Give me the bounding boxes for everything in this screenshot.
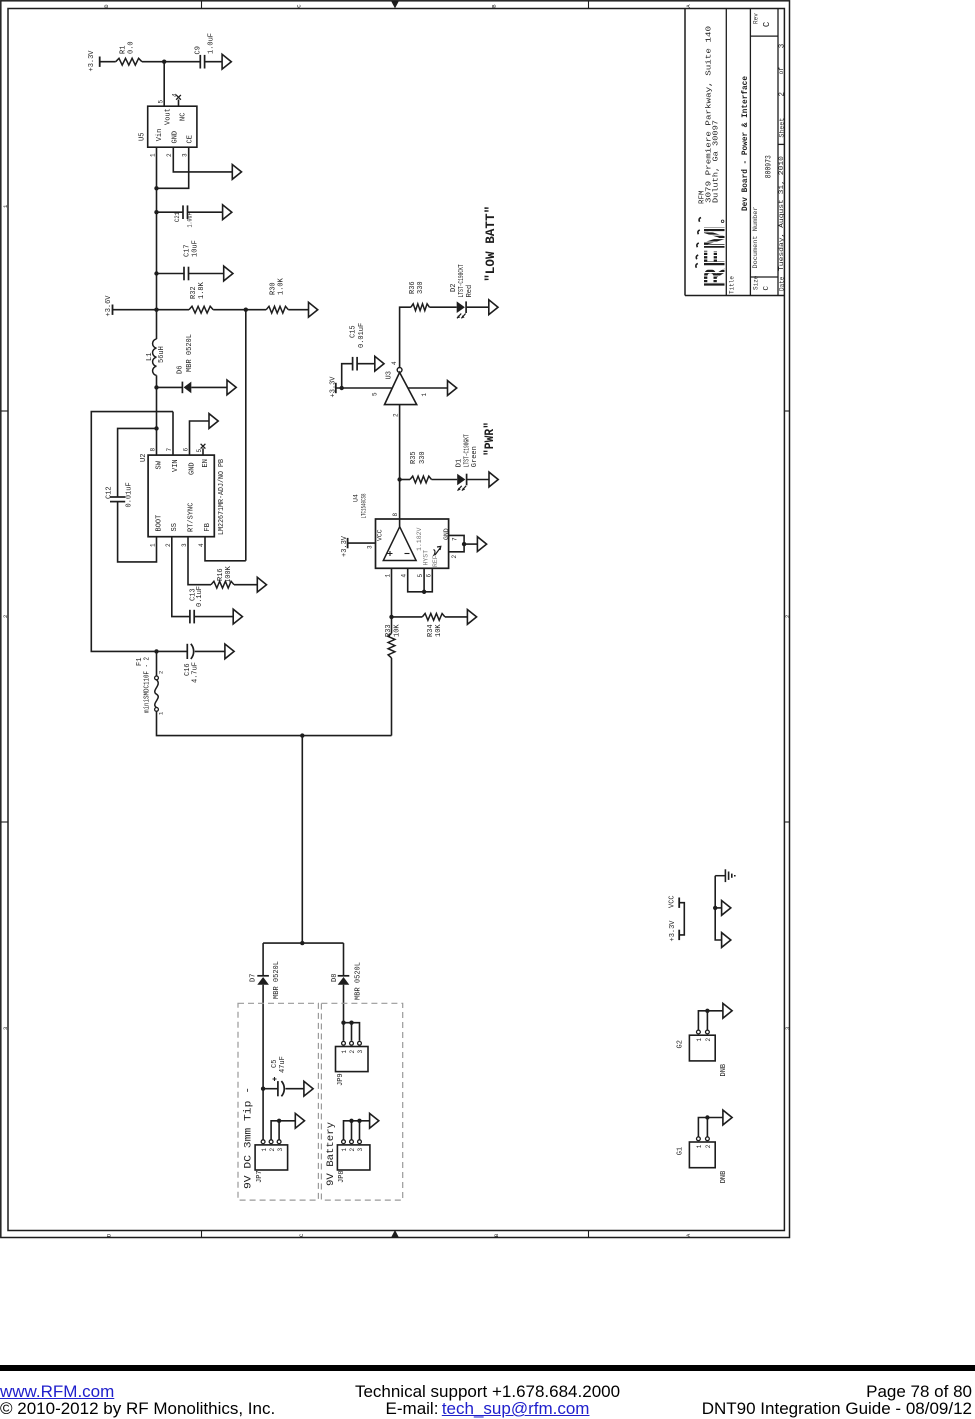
wire	[336, 387, 392, 389]
svg-text:5: 5	[196, 449, 203, 453]
svg-text:1.0K: 1.0K	[278, 277, 286, 295]
svg-text:A: A	[685, 1233, 692, 1237]
svg-text:DNB: DNB	[720, 1171, 728, 1184]
svg-text:7: 7	[452, 537, 459, 541]
pin stub NC pin 4	[178, 100, 180, 107]
svg-text:D8: D8	[331, 974, 339, 982]
zone tick left	[1, 821, 8, 823]
svg-text:Title: Title	[729, 276, 736, 294]
no-connect X	[176, 95, 181, 100]
svg-text:56uH: 56uH	[158, 346, 166, 363]
junction	[349, 1021, 353, 1025]
wire	[715, 907, 721, 909]
diode D6	[184, 382, 192, 394]
svg-text:LTC1540CS8: LTC1540CS8	[361, 493, 368, 518]
wire	[142, 61, 200, 63]
svg-text:Duluth, Ga 30097: Duluth, Ga 30097	[712, 120, 720, 203]
ground	[224, 266, 233, 281]
pin circles JP7	[261, 1140, 265, 1144]
svg-text:MBR 0520L: MBR 0520L	[186, 334, 194, 372]
svg-text:C17: C17	[184, 244, 192, 257]
wire	[163, 62, 165, 106]
svg-text:0.1uF: 0.1uF	[196, 586, 204, 607]
svg-text:4: 4	[198, 543, 205, 547]
wire C16 branch	[157, 650, 188, 652]
wire U2 VIN pin	[172, 412, 174, 456]
diode D8	[338, 977, 350, 985]
drawing frame outer border	[1, 1, 790, 1238]
wire C15 branch	[342, 364, 353, 388]
wire	[288, 309, 308, 311]
svg-text:9V Battery: 9V Battery	[326, 1122, 337, 1186]
wire R34 branch	[392, 616, 423, 618]
ground	[209, 414, 218, 429]
svg-text:C: C	[298, 1233, 305, 1237]
svg-text:0.01uF: 0.01uF	[126, 482, 134, 507]
svg-text:2: 2	[778, 92, 786, 97]
capacitor C12	[110, 496, 125, 498]
wire battery feed	[301, 736, 303, 944]
svg-text:1: 1	[385, 574, 392, 578]
power flag +3.6V	[112, 305, 114, 315]
junction	[154, 186, 158, 190]
pin circles G1	[697, 1137, 701, 1141]
svg-text:800973: 800973	[765, 155, 774, 178]
wire D6 branch	[157, 386, 183, 388]
ground	[448, 381, 457, 396]
svg-text:GND: GND	[172, 131, 180, 144]
LED D1	[457, 474, 465, 486]
wire	[343, 985, 345, 1041]
svg-text:2: 2	[784, 615, 791, 618]
junction	[705, 1115, 709, 1119]
svg-text:D1: D1	[456, 459, 464, 467]
power flag +3.3V	[678, 930, 680, 940]
svg-text:2: 2	[349, 1148, 356, 1152]
svg-text:U5: U5	[139, 133, 147, 141]
wire	[706, 1011, 708, 1030]
svg-text:Sheet: Sheet	[778, 118, 785, 138]
wire	[213, 309, 266, 311]
title block divider title/docnum	[749, 9, 751, 296]
wire JP7 pins 2-3 to ground	[271, 1121, 295, 1140]
wire U4 plus input	[391, 568, 393, 633]
RFM logo registered mark	[721, 220, 724, 223]
svg-text:Rev: Rev	[753, 13, 760, 24]
svg-text:1.8K: 1.8K	[198, 281, 206, 299]
svg-text:GND: GND	[443, 528, 450, 540]
wire C21 branch	[157, 211, 184, 213]
wire C17 branch	[157, 273, 185, 275]
capacitor C17	[183, 267, 185, 281]
svg-text:1.0uF: 1.0uF	[208, 33, 216, 54]
buck regulator U2	[148, 455, 214, 537]
wire	[359, 1121, 361, 1140]
ground	[489, 472, 498, 487]
wire	[351, 1121, 353, 1140]
comparator triangle	[383, 527, 416, 561]
svg-text:C21: C21	[174, 212, 181, 222]
title block rev cell divider	[750, 35, 778, 37]
svg-text:1: 1	[696, 1144, 703, 1148]
capacitor C5 polarized	[277, 1081, 279, 1096]
svg-text:3: 3	[182, 153, 189, 157]
svg-text:8: 8	[150, 448, 157, 452]
wire U4 right pins to ground	[449, 535, 465, 551]
resistor R34	[422, 614, 445, 621]
svg-text:U2: U2	[140, 454, 148, 462]
svg-text:D2: D2	[450, 284, 458, 292]
svg-text:+3.3V: +3.3V	[88, 50, 96, 72]
junction	[154, 426, 158, 430]
svg-text:JP8: JP8	[338, 1170, 346, 1183]
resistor R35	[410, 476, 432, 483]
resistor R1	[116, 58, 142, 65]
RFM logo flame marks	[699, 218, 701, 222]
comparator U4 box	[376, 519, 449, 568]
zone tick bottom	[588, 1231, 590, 1238]
drawing frame inner border	[8, 9, 784, 1231]
wire	[285, 1088, 304, 1090]
svg-text:100K: 100K	[225, 565, 233, 583]
connector JP8	[337, 1145, 370, 1170]
wire U2 RT/SYNC to R16	[188, 537, 211, 585]
svg-text:330: 330	[419, 451, 427, 464]
svg-text:2: 2	[165, 543, 172, 547]
LED D2	[457, 301, 465, 313]
wire feedback sense	[245, 310, 247, 561]
svg-text:2: 2	[349, 1050, 356, 1054]
svg-text:D6: D6	[177, 366, 185, 374]
ground	[722, 901, 731, 916]
svg-text:C12: C12	[106, 486, 114, 499]
footer row 1	[0, 1382, 975, 1402]
svg-text:R16: R16	[217, 568, 225, 581]
wire U2 GND to ground	[190, 421, 210, 455]
wire	[432, 479, 458, 481]
svg-text:3: 3	[784, 1027, 791, 1030]
svg-text:SS: SS	[171, 523, 179, 531]
wire	[156, 375, 158, 455]
svg-text:3: 3	[181, 543, 188, 547]
svg-text:R34: R34	[427, 624, 435, 637]
svg-text:+3.6V: +3.6V	[105, 295, 113, 317]
capacitor C16 polarized	[186, 644, 188, 659]
wire U3 output	[400, 307, 411, 367]
svg-text:VIN: VIN	[172, 459, 180, 472]
wire U3 ground pin	[408, 387, 448, 389]
ground	[467, 610, 476, 625]
svg-text:+3.3V: +3.3V	[669, 920, 677, 942]
resistor R32	[189, 306, 213, 313]
junction	[349, 1119, 353, 1123]
svg-text:CE: CE	[186, 135, 194, 143]
wire bootstrap loop with C12	[118, 428, 157, 497]
svg-text:2: 2	[2, 615, 9, 618]
wire U2 FB to divider	[205, 537, 246, 561]
wire	[429, 306, 456, 308]
capacitor C21	[182, 205, 184, 219]
svg-text:1: 1	[150, 543, 157, 547]
junction	[154, 308, 158, 312]
ground	[723, 1003, 732, 1018]
no-connect X	[201, 444, 206, 449]
svg-text:1: 1	[150, 153, 157, 157]
junction	[154, 649, 158, 653]
zone tick bottom	[201, 1231, 203, 1238]
footer rule	[0, 1365, 975, 1371]
svg-text:R35: R35	[410, 451, 418, 464]
title block size cell divider	[750, 276, 778, 278]
svg-text:6: 6	[183, 448, 190, 452]
svg-text:+3.3V: +3.3V	[330, 376, 338, 398]
svg-text:miniSMDC110F - 2: miniSMDC110F - 2	[144, 657, 152, 713]
connector JP7	[255, 1145, 288, 1170]
wire	[391, 658, 393, 736]
resistor R36	[411, 304, 430, 311]
svg-text:4.7uF: 4.7uF	[192, 662, 200, 683]
junction	[357, 1119, 361, 1123]
wire VCC to +3.3V tie	[679, 903, 684, 935]
zone arrow bottom	[391, 1230, 399, 1237]
wire	[191, 386, 227, 388]
svg-text:6: 6	[426, 574, 433, 578]
regulator U5	[148, 106, 197, 147]
wire	[156, 651, 158, 676]
wire JP8 pins to ground	[344, 1121, 370, 1140]
zone tick top	[201, 1, 203, 9]
svg-text:G1: G1	[677, 1147, 685, 1155]
resistor R30	[266, 306, 288, 313]
svg-text:C15: C15	[350, 325, 358, 338]
svg-text:0.01uF: 0.01uF	[358, 323, 366, 348]
junction	[341, 1021, 345, 1025]
svg-text:3: 3	[357, 1148, 364, 1152]
junction	[277, 1119, 281, 1123]
title block sheet cell divider	[778, 143, 784, 145]
svg-text:R1: R1	[120, 46, 128, 54]
svg-text:2: 2	[705, 1038, 712, 1042]
svg-text:1.0uF: 1.0uF	[187, 212, 194, 227]
svg-text:Tuesday, August 31, 2010: Tuesday, August 31, 2010	[778, 156, 785, 271]
ground	[477, 537, 486, 552]
svg-text:47uF: 47uF	[279, 1056, 287, 1073]
zone tick top	[588, 1, 590, 9]
wire G2 pins to ground	[698, 1011, 723, 1030]
svg-text:MBR 0520L: MBR 0520L	[355, 962, 363, 1000]
title block divider docnum/date	[777, 9, 779, 296]
svg-text:Green: Green	[471, 446, 479, 467]
svg-text:3: 3	[357, 1050, 364, 1054]
svg-text:10K: 10K	[394, 624, 402, 637]
ground	[227, 380, 236, 395]
ground	[723, 1110, 732, 1125]
svg-text:10K: 10K	[435, 624, 443, 637]
svg-text:1: 1	[158, 711, 165, 715]
wire	[706, 1118, 708, 1137]
wire	[194, 616, 233, 618]
wire	[351, 1023, 353, 1041]
pin circles G2	[697, 1030, 701, 1034]
wire	[113, 309, 190, 311]
svg-text:MBR 0520L: MBR 0520L	[273, 961, 281, 999]
svg-text:0.0: 0.0	[128, 41, 136, 54]
svg-text:4: 4	[391, 361, 398, 365]
svg-text:8: 8	[392, 513, 399, 517]
junction	[397, 477, 401, 481]
zone tick right	[784, 821, 789, 823]
junction	[244, 308, 248, 312]
resistor R16	[211, 581, 234, 588]
wire	[195, 650, 225, 652]
power flag +3.3V	[347, 538, 349, 548]
svg-text:C: C	[295, 4, 302, 8]
power flag +3.3V	[99, 57, 101, 67]
svg-text:REF: REF	[432, 555, 439, 567]
svg-text:SW: SW	[155, 460, 163, 469]
power flag +3.3V	[335, 383, 337, 393]
wire main rail from U5 Vin	[156, 147, 158, 339]
svg-text:2: 2	[269, 1148, 276, 1152]
wire	[189, 273, 224, 275]
svg-text:VCC: VCC	[377, 529, 384, 541]
wire	[205, 61, 223, 63]
wire	[343, 943, 345, 975]
svg-text:U3: U3	[386, 371, 394, 379]
svg-text:R36: R36	[409, 281, 417, 294]
svg-text:1: 1	[341, 1050, 348, 1054]
svg-text:4: 4	[401, 574, 408, 578]
wire	[278, 1121, 280, 1140]
svg-text:VCC: VCC	[669, 895, 677, 908]
svg-text:JP9: JP9	[337, 1073, 345, 1086]
svg-text:LM22671MR-ADJ/NO PB: LM22671MR-ADJ/NO PB	[218, 459, 226, 535]
svg-text:C: C	[762, 21, 772, 27]
wire ground tie	[715, 876, 721, 940]
svg-text:C5: C5	[271, 1060, 279, 1068]
svg-text:3: 3	[367, 545, 374, 549]
ground	[223, 205, 232, 220]
svg-text:"LOW BATT": "LOW BATT"	[484, 206, 498, 282]
wire	[118, 502, 157, 562]
output bubble	[397, 368, 402, 373]
wire	[445, 616, 468, 618]
connector JP9	[336, 1047, 369, 1072]
svg-text:1.182V: 1.182V	[416, 527, 423, 551]
pin circles JP9	[342, 1041, 346, 1045]
svg-text:Vout: Vout	[165, 108, 173, 125]
svg-text:4: 4	[172, 93, 179, 97]
svg-text:1: 1	[696, 1038, 703, 1042]
svg-text:R33: R33	[385, 624, 393, 637]
wire	[464, 543, 477, 545]
svg-text:LTST-C190CKT: LTST-C190CKT	[458, 264, 466, 297]
svg-text:G2: G2	[677, 1040, 685, 1048]
svg-text:2: 2	[166, 153, 173, 157]
svg-text:Vin: Vin	[156, 129, 164, 142]
plus input mark	[388, 551, 393, 556]
svg-text:1: 1	[261, 1148, 268, 1152]
resistor R33	[388, 633, 395, 658]
svg-text:BOOT: BOOT	[155, 515, 163, 532]
inverter U3	[385, 372, 417, 404]
earth ground symbol	[715, 875, 725, 877]
svg-text:2: 2	[705, 1144, 712, 1148]
wire	[100, 61, 116, 63]
footer row 2	[0, 1399, 975, 1419]
diode D7	[257, 977, 269, 985]
wire U3 input from U4 output	[399, 405, 401, 527]
title block divider company/title	[725, 9, 727, 296]
junction	[340, 386, 344, 390]
junction	[462, 542, 466, 546]
svg-text:9V DC 3mm Tip -: 9V DC 3mm Tip -	[243, 1087, 255, 1189]
svg-text:D7: D7	[250, 974, 258, 982]
svg-text:2: 2	[451, 555, 458, 559]
ground	[489, 300, 498, 315]
wire	[357, 363, 375, 365]
wire U5 GND to ground	[173, 147, 232, 172]
svg-text:2: 2	[393, 413, 400, 417]
dashed box 9V Battery	[321, 1003, 402, 1200]
svg-text:NC: NC	[179, 113, 187, 121]
junction	[389, 615, 393, 619]
wire	[262, 985, 264, 1140]
title block bottom boundary	[685, 295, 784, 297]
dashed box 9V DC	[238, 1003, 318, 1200]
svg-text:Document Number: Document Number	[752, 206, 759, 268]
capacitor C15	[352, 357, 354, 371]
ground	[233, 609, 242, 624]
wire	[467, 479, 489, 481]
svg-text:5: 5	[417, 574, 424, 578]
wire battery rail	[157, 711, 392, 735]
svg-text:RT/SYNC: RT/SYNC	[187, 503, 195, 532]
wire	[234, 584, 257, 586]
svg-text:DNB: DNB	[720, 1064, 728, 1077]
wire HYST stub	[423, 568, 425, 592]
svg-text:HYST: HYST	[423, 550, 430, 566]
svg-text:Size: Size	[753, 275, 760, 290]
ground	[309, 302, 318, 317]
svg-text:5: 5	[372, 392, 379, 396]
wire U4 minus input tie	[408, 568, 433, 592]
svg-text:2: 2	[158, 671, 165, 674]
junction	[154, 385, 158, 389]
svg-text:D: D	[105, 1233, 112, 1237]
wire	[262, 943, 264, 975]
wire C5 branch	[263, 1088, 278, 1090]
wire U2 SS to C13	[172, 537, 190, 617]
capacitor C9	[199, 55, 201, 69]
svg-text:3: 3	[778, 43, 786, 48]
svg-text:GND: GND	[188, 462, 196, 475]
svg-text:A: A	[685, 4, 692, 8]
zone tick left	[1, 410, 8, 412]
svg-text:Date: Date	[778, 276, 785, 291]
svg-text:JP7: JP7	[256, 1170, 264, 1183]
svg-text:R32: R32	[190, 286, 198, 299]
svg-text:D: D	[103, 4, 110, 8]
wire G1 pins to ground	[698, 1118, 723, 1137]
wire	[263, 942, 343, 944]
svg-text:B: B	[490, 4, 497, 8]
svg-text:Red: Red	[466, 285, 474, 298]
ground	[295, 1113, 304, 1128]
svg-text:EN: EN	[202, 459, 210, 467]
svg-text:of: of	[778, 67, 785, 75]
wire	[466, 306, 489, 308]
